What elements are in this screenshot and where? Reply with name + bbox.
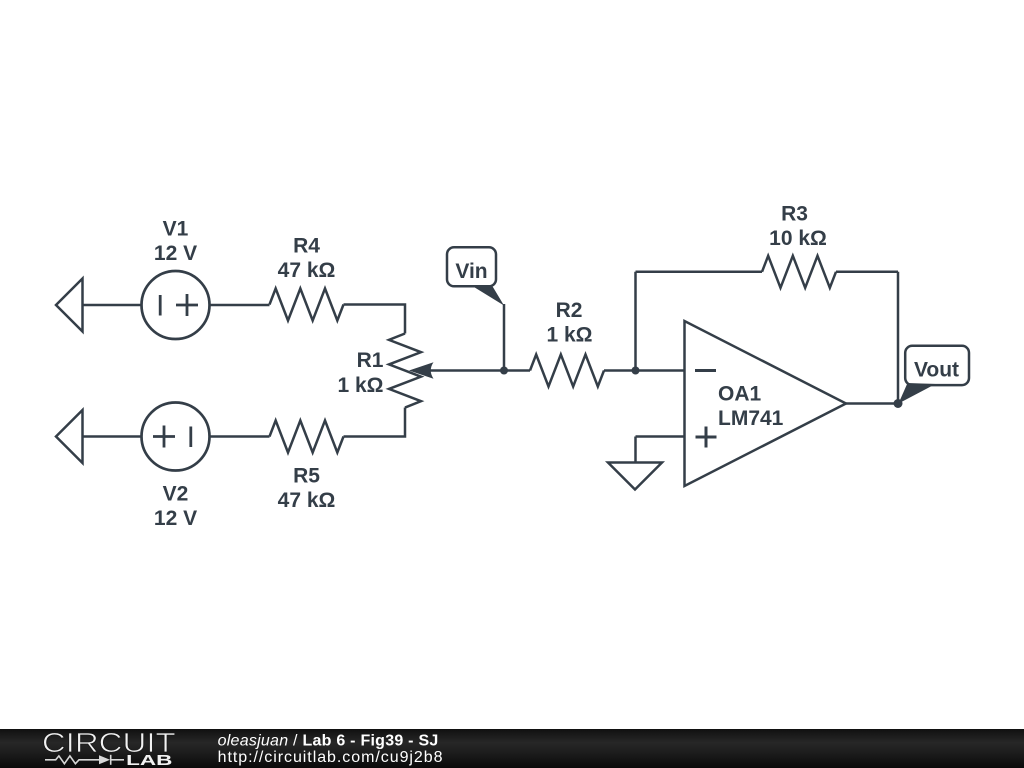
wire (83, 435, 142, 438)
node inverting input junction (632, 367, 640, 375)
wire ground stem (634, 437, 637, 463)
svg-text:R3: R3 (781, 203, 808, 226)
svg-text:R4: R4 (293, 235, 320, 258)
resistor R3 (762, 256, 836, 288)
op-amp minus input symbol (695, 369, 716, 372)
svg-text:12 V: 12 V (154, 242, 197, 265)
svg-text:1 kΩ: 1 kΩ (337, 374, 383, 397)
node Vin junction (500, 367, 508, 375)
svg-text:10 kΩ: 10 kΩ (769, 227, 827, 250)
wire feedback right vertical (897, 272, 900, 404)
wire feedback top right (836, 271, 898, 274)
resistor R4 (270, 289, 344, 321)
svg-text:OA1: OA1 (718, 383, 762, 406)
svg-text:47 kΩ: 47 kΩ (278, 259, 336, 282)
potentiometer R1 (389, 334, 421, 408)
wire (604, 369, 685, 372)
wire plus input (636, 435, 685, 438)
wire (210, 435, 270, 438)
terminal arrow top-left (56, 279, 83, 332)
potentiometer R1 wiper arrow (409, 362, 530, 378)
svg-text:Vin: Vin (455, 260, 487, 283)
svg-text:V2: V2 (163, 483, 189, 506)
resistor R2 (530, 355, 604, 387)
ground (608, 463, 662, 490)
svg-text:12 V: 12 V (154, 507, 197, 530)
svg-text:http://circuitlab.com/cu9j2b8: http://circuitlab.com/cu9j2b8 (218, 749, 444, 766)
wire (344, 408, 406, 437)
terminal arrow bottom-left (56, 410, 83, 463)
op-amp OA1 (685, 321, 847, 486)
footer bar (0, 729, 1024, 768)
wire feedback left vertical (634, 272, 637, 371)
svg-text:1 kΩ: 1 kΩ (546, 324, 592, 347)
flag Vin (447, 247, 504, 370)
wire output (846, 402, 898, 405)
svg-text:47 kΩ: 47 kΩ (278, 489, 336, 512)
wire (210, 304, 270, 307)
svg-text:Vout: Vout (914, 358, 959, 381)
wire feedback top left (636, 271, 763, 274)
resistor R5 (270, 421, 344, 453)
svg-text:LM741: LM741 (718, 407, 784, 430)
flag Vout (899, 346, 970, 404)
svg-text:R1: R1 (357, 349, 384, 372)
svg-text:R2: R2 (556, 299, 583, 322)
svg-text:R5: R5 (293, 465, 320, 488)
node Vout junction (894, 399, 903, 408)
voltage source V2 (142, 403, 210, 471)
svg-text:LAB: LAB (126, 753, 172, 768)
svg-text:V1: V1 (163, 218, 189, 241)
voltage source V1 (142, 271, 210, 339)
wire (83, 304, 142, 307)
op-amp plus input symbol (696, 427, 717, 448)
CircuitLab logo schematic squiggle (45, 755, 124, 765)
svg-text:oleasjuan / Lab 6 - Fig39 - SJ: oleasjuan / Lab 6 - Fig39 - SJ (218, 733, 439, 750)
wire (344, 305, 406, 334)
